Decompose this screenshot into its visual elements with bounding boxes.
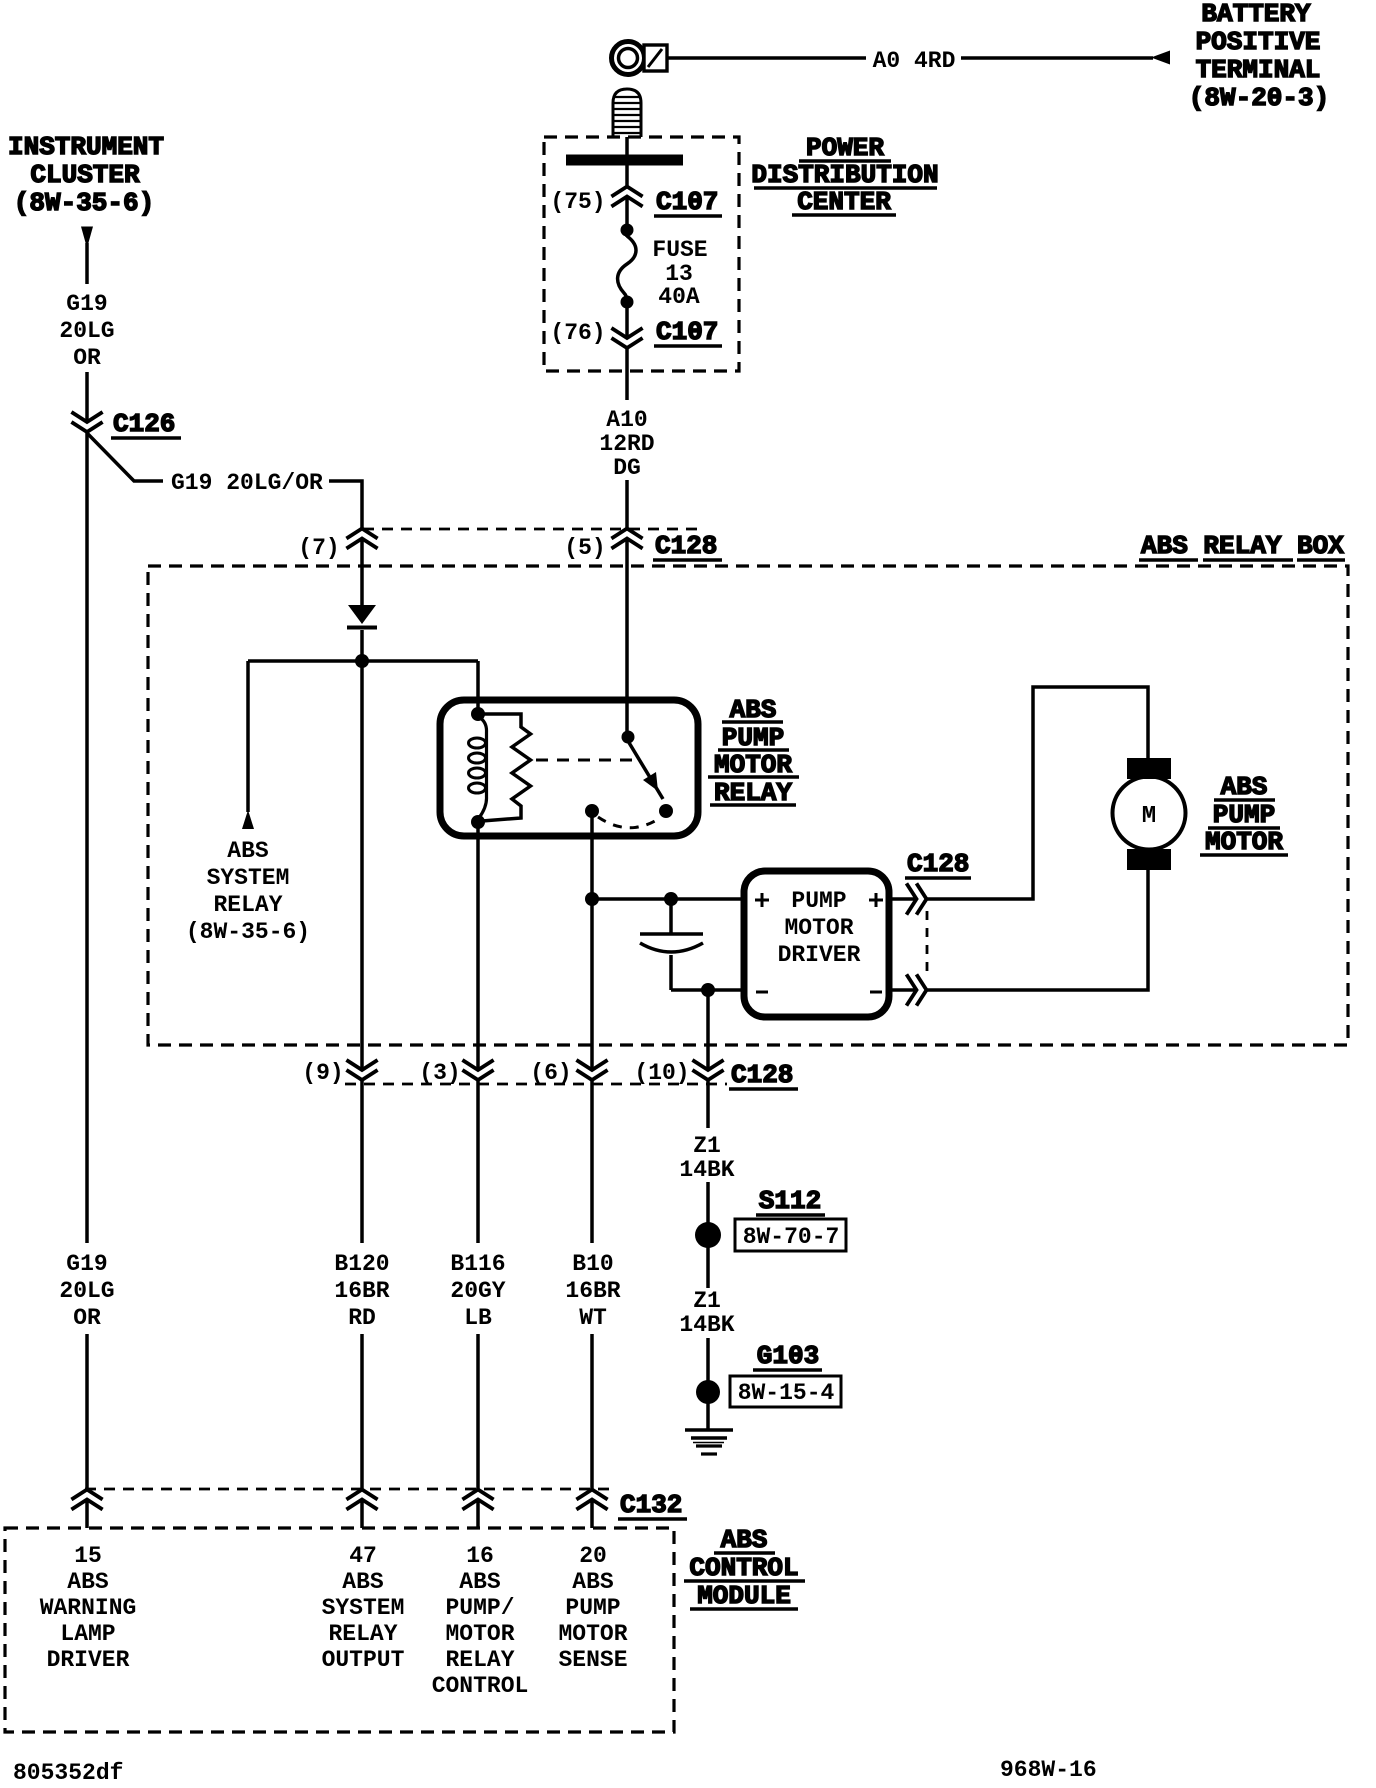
connector (6) chevron (578, 1061, 606, 1080)
label ABS PUMP MOTOR RELAY (708, 695, 799, 808)
svg-text:B10: B10 (572, 1251, 613, 1277)
wire A0 4RD to battery (667, 56, 866, 60)
svg-text:Z1: Z1 (693, 1288, 721, 1314)
svg-text:INSTRUMENT: INSTRUMENT (8, 132, 164, 162)
svg-text:16BR: 16BR (565, 1278, 620, 1304)
svg-text:47: 47 (349, 1543, 377, 1569)
svg-text:G19: G19 (66, 291, 107, 317)
label Z1 14BK upper (679, 1133, 734, 1183)
box 8W-15-4 (730, 1376, 841, 1407)
svg-text:(9): (9) (302, 1060, 343, 1086)
svg-text:S112: S112 (759, 1186, 821, 1216)
relay pin dot top-left (471, 707, 485, 721)
connector (9) chevron (348, 1061, 376, 1080)
wire B116 to module (476, 1334, 480, 1490)
label ABS SYSTEM RELAY (186, 838, 310, 945)
svg-text:14BK: 14BK (679, 1312, 734, 1338)
svg-text:16BR: 16BR (334, 1278, 389, 1304)
wire A10 to relay box (625, 480, 629, 529)
svg-text:ABS: ABS (67, 1569, 109, 1595)
ABS relay box dashed border (148, 566, 1348, 1045)
svg-text:805352df: 805352df (13, 1760, 123, 1786)
motor M1 (1113, 758, 1186, 870)
svg-text:POSITIVE: POSITIVE (1196, 27, 1321, 57)
svg-text:Z1: Z1 (693, 1133, 721, 1159)
svg-text:(6): (6) (530, 1060, 571, 1086)
relay switch blade (628, 741, 663, 799)
bus bar (566, 155, 683, 166)
label INSTRUMENT CLUSTER (8, 132, 164, 218)
svg-text:ABS: ABS (342, 1569, 384, 1595)
wire G19 upper (85, 243, 89, 284)
svg-text:ABS: ABS (721, 1525, 768, 1555)
label BATTERY POSITIVE TERMINAL (1189, 0, 1329, 113)
svg-text:(10): (10) (634, 1060, 689, 1086)
relay contact dot right (659, 804, 673, 818)
svg-text:SENSE: SENSE (558, 1647, 627, 1673)
connector C128 chevron minus (908, 976, 927, 1004)
wire B120 to module (360, 1334, 364, 1490)
svg-text:SYSTEM: SYSTEM (207, 865, 290, 891)
wire A10 inside relay to pivot (625, 703, 629, 737)
svg-text:G19: G19 (66, 1251, 107, 1277)
wire driver minus out (889, 988, 916, 992)
svg-text:A0 4RD: A0 4RD (873, 48, 956, 74)
svg-text:(7): (7) (298, 535, 339, 561)
svg-text:RELAY: RELAY (445, 1647, 514, 1673)
svg-text:ABS: ABS (459, 1569, 501, 1595)
label POWER DISTRIBUTION CENTER (751, 133, 938, 217)
svg-text:PUMP: PUMP (1213, 800, 1275, 830)
svg-text:C128: C128 (907, 849, 969, 879)
svg-text:C128: C128 (731, 1060, 793, 1090)
connector C132 chevron pin 15 (73, 1490, 101, 1509)
power distribution center dashed box (544, 137, 739, 371)
relay switch blade arrowhead (643, 772, 658, 791)
svg-text:DRIVER: DRIVER (47, 1647, 130, 1673)
wire motor minus (927, 870, 1149, 990)
relay pin dot bottom-left (471, 815, 485, 829)
svg-text:16: 16 (466, 1543, 494, 1569)
svg-text:ABS: ABS (572, 1569, 614, 1595)
junction node (355, 654, 369, 668)
relay resistor (482, 714, 531, 821)
wire coil pin inside relay (476, 703, 480, 714)
svg-text:MODULE: MODULE (697, 1581, 791, 1611)
svg-text:(8W-20-3): (8W-20-3) (1189, 83, 1329, 113)
battery stud (612, 89, 642, 137)
svg-text:DG: DG (613, 455, 641, 481)
driver plus right (869, 893, 883, 907)
svg-text:G103: G103 (757, 1341, 819, 1371)
svg-text:(8W-35-6): (8W-35-6) (14, 188, 154, 218)
svg-text:LB: LB (464, 1305, 492, 1331)
driver plus left (755, 893, 769, 907)
svg-text:ABS RELAY BOX: ABS RELAY BOX (1141, 531, 1344, 561)
svg-text:CONTROL: CONTROL (432, 1673, 529, 1699)
svg-text:FUSE: FUSE (652, 237, 707, 263)
svg-text:20: 20 (579, 1543, 607, 1569)
wire A0 continues (961, 56, 1153, 60)
node capacitor tap (664, 892, 678, 906)
svg-text:G19 20LG/OR: G19 20LG/OR (171, 470, 323, 496)
label B116 20GY LB (450, 1251, 505, 1331)
relay dashed contact arc (598, 817, 660, 828)
svg-text:CONTROL: CONTROL (689, 1553, 798, 1583)
connector (5) C128 chevron (613, 529, 641, 548)
connector C126 chevron (73, 413, 101, 432)
label pin 16 ABS PUMP/MOTOR RELAY CONTROL (432, 1543, 529, 1699)
svg-text:20LG: 20LG (59, 1278, 114, 1304)
splice S112 (695, 1222, 721, 1248)
arrow to ABS system relay (242, 810, 254, 829)
svg-text:TERMINAL: TERMINAL (1196, 55, 1321, 85)
wire driver plus out (889, 897, 916, 901)
connector C132 chevron pin 47 (348, 1490, 376, 1509)
label G19 lower (59, 1251, 114, 1331)
ABS control module dashed box (5, 1528, 674, 1732)
svg-text:C107: C107 (656, 187, 718, 217)
svg-text:12RD: 12RD (599, 431, 654, 457)
wire to pump motor driver plus (592, 897, 744, 901)
svg-text:20GY: 20GY (450, 1278, 505, 1304)
connector C128 dashed line top (363, 528, 700, 531)
relay switch pivot dot (622, 731, 635, 744)
svg-text:A10: A10 (606, 407, 647, 433)
svg-text:LAMP: LAMP (60, 1621, 115, 1647)
pump motor driver U2 (744, 871, 889, 1017)
svg-text:POWER: POWER (806, 133, 884, 163)
label ABS PUMP MOTOR (1200, 772, 1288, 857)
node ground leg (701, 983, 715, 997)
wire G19 splice diagonal (87, 433, 163, 481)
connector C132 dashed line (85, 1488, 612, 1491)
svg-text:DISTRIBUTION: DISTRIBUTION (751, 160, 938, 190)
wire relay coil to (3) (476, 822, 480, 1070)
label PUMP MOTOR DRIVER (778, 888, 861, 968)
label A10 12RD DG (599, 407, 654, 481)
svg-text:CENTER: CENTER (797, 187, 891, 217)
wire Z1 to S112 (706, 1182, 710, 1288)
relay coil (469, 717, 487, 818)
wire A10 in PDC (625, 137, 629, 187)
label pin 15 ABS WARNING LAMP DRIVER (40, 1543, 137, 1673)
wire to (10) (706, 990, 710, 1070)
svg-text:C132: C132 (620, 1490, 682, 1520)
wire capacitor to driver minus (671, 988, 744, 992)
connector (10) chevron (694, 1061, 722, 1080)
wire below fuse (625, 302, 629, 338)
svg-text:RELAY: RELAY (328, 1621, 397, 1647)
splice G103 (696, 1380, 720, 1404)
label G19 20LG OR (59, 291, 114, 371)
fuse 13 40A element (618, 236, 636, 301)
svg-text:C128: C128 (655, 531, 717, 561)
svg-text:8W-15-4: 8W-15-4 (738, 1380, 835, 1406)
wire junction horizontal (248, 659, 478, 663)
svg-text:MOTOR: MOTOR (558, 1621, 627, 1647)
svg-text:(75): (75) (550, 189, 605, 215)
arrow from instrument cluster (81, 227, 93, 249)
svg-text:MOTOR: MOTOR (1205, 827, 1283, 857)
svg-text:RELAY: RELAY (213, 892, 282, 918)
dashed connector link (926, 911, 929, 976)
svg-text:MOTOR: MOTOR (445, 1621, 514, 1647)
svg-text:B120: B120 (334, 1251, 389, 1277)
ground G103 symbol (685, 1430, 733, 1454)
svg-text:20LG: 20LG (59, 318, 114, 344)
connector (7) C128 chevron (348, 529, 376, 548)
label pin 20 ABS PUMP MOTOR SENSE (558, 1543, 627, 1673)
driver minus left (756, 991, 768, 994)
svg-text:C107: C107 (656, 317, 718, 347)
wire B10 to module (590, 1334, 594, 1490)
connector C128 dashed line bottom (345, 1083, 727, 1086)
svg-text:14BK: 14BK (679, 1157, 734, 1183)
connector (75) C107 chevron (613, 187, 641, 206)
svg-text:PUMP: PUMP (791, 888, 846, 914)
connector (76) C107 chevron (613, 329, 641, 348)
svg-text:(3): (3) (419, 1060, 460, 1086)
svg-text:M: M (1142, 803, 1156, 830)
connector (3) chevron (464, 1061, 492, 1080)
box 8W-70-7 (735, 1219, 846, 1251)
svg-text:WT: WT (579, 1305, 607, 1331)
node at pump feed (585, 892, 599, 906)
relay contact dot left (585, 804, 599, 818)
wire G19 main down (85, 432, 89, 1243)
svg-text:DRIVER: DRIVER (778, 942, 861, 968)
relay U1 outline (440, 700, 698, 836)
label pin 47 ABS SYSTEM RELAY OUTPUT (322, 1543, 405, 1673)
svg-text:968W-16: 968W-16 (1000, 1757, 1097, 1783)
connector C128 chevron plus (908, 885, 927, 913)
svg-text:(5): (5) (564, 535, 605, 561)
svg-text:B116: B116 (450, 1251, 505, 1277)
svg-text:OUTPUT: OUTPUT (322, 1647, 405, 1673)
wire relay contact down (590, 811, 594, 1070)
wire to (7) (329, 481, 362, 529)
driver minus right (870, 991, 882, 994)
junction dot below fuse (621, 296, 634, 309)
junction dot above fuse (621, 224, 634, 237)
svg-text:CLUSTER: CLUSTER (30, 160, 140, 190)
svg-text:BATTERY: BATTERY (1201, 0, 1311, 29)
svg-text:WARNING: WARNING (40, 1595, 137, 1621)
svg-text:ABS: ABS (1221, 772, 1268, 802)
svg-text:40A: 40A (658, 284, 700, 310)
connector C132 chevron pin 16 (464, 1490, 492, 1509)
label ABS CONTROL MODULE (684, 1525, 805, 1611)
svg-text:(76): (76) (550, 320, 605, 346)
label ABS RELAY BOX (1139, 531, 1345, 561)
svg-text:(8W-35-6): (8W-35-6) (186, 919, 310, 945)
wire G19 to C126 (85, 372, 89, 422)
svg-text:OR: OR (73, 1305, 101, 1331)
svg-text:PUMP: PUMP (565, 1595, 620, 1621)
wire motor plus (927, 687, 1149, 899)
wire diode to junction (360, 630, 364, 1070)
dashed actuator link (536, 759, 641, 762)
diode (347, 605, 377, 628)
wire junction to relay coil pin (476, 661, 480, 714)
svg-text:15: 15 (74, 1543, 102, 1569)
label B120 16BR RD (334, 1251, 389, 1331)
svg-text:ABS: ABS (227, 838, 269, 864)
svg-text:MOTOR: MOTOR (784, 915, 853, 941)
label FUSE 13 40A (652, 237, 707, 310)
svg-text:OR: OR (73, 345, 101, 371)
svg-text:PUMP/: PUMP/ (445, 1595, 514, 1621)
label B10 16BR WT (565, 1251, 620, 1331)
label Z1 14BK lower (679, 1288, 734, 1338)
svg-text:RD: RD (348, 1305, 376, 1331)
wire G19 to module (85, 1334, 89, 1490)
wire to ABS system relay (246, 661, 250, 812)
svg-text:SYSTEM: SYSTEM (322, 1595, 405, 1621)
svg-text:8W-70-7: 8W-70-7 (743, 1224, 840, 1250)
capacitor C1 (640, 899, 703, 990)
connector C132 chevron pin 20 (578, 1490, 606, 1509)
svg-text:C126: C126 (113, 409, 175, 439)
ring terminal (battery eyelet) (612, 42, 668, 75)
wire Z1 to G103 (706, 1338, 710, 1429)
arrow to battery positive terminal (1151, 51, 1170, 65)
